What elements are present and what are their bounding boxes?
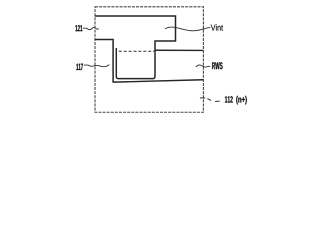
wire broken leader for 112 [200, 97, 205, 99]
wire leader squiggle for 121 [83, 27, 99, 29]
node 112 dashed substrate boundary box [95, 7, 203, 112]
wire left layer line and outer trench wall [95, 39, 113, 82]
label Vint [211, 24, 223, 30]
label RWS [212, 62, 223, 69]
wire leader arc for 117 [84, 65, 109, 67]
wire tilde leader for RWS [196, 65, 210, 67]
wire outer bottom layer line across to right border [113, 80, 204, 82]
label 117 [76, 64, 83, 70]
label 112(n+) [225, 96, 233, 102]
wire dashed junction line inside trench [119, 50, 155, 52]
wire wavy leader for Vint [165, 27, 210, 31]
wire RWS upper boundary line to right border [155, 49, 203, 51]
capacitor 117 inner storage electrode U-liner [116, 48, 155, 79]
label 121 [75, 25, 82, 31]
wire 121 plate electrode outline: top slab, right step, trench right wall [95, 16, 176, 77]
